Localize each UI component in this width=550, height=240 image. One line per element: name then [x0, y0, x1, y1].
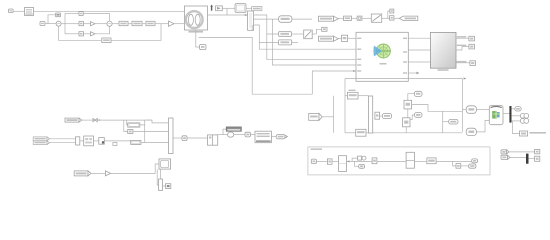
- wire: dc bus mid horizontal: [412, 105, 463, 112]
- mux: converter legs: [369, 96, 373, 133]
- wire: [84, 33, 91, 35]
- wire: [251, 134, 256, 136]
- goto tag: torque Te: [279, 40, 292, 45]
- from tag T1 (measurement row): [65, 118, 82, 122]
- goto tag: current is: [279, 32, 292, 37]
- from tag chain row2: [318, 36, 338, 41]
- wire: [162, 185, 165, 187]
- tall mux MX: [169, 118, 174, 154]
- wire: big block out1 to gray block: [408, 37, 430, 39]
- block: round to square: [357, 16, 362, 20]
- block: I gain: [79, 22, 84, 26]
- wire: bus feed down 3: [272, 19, 356, 65]
- block: feedback filter: [102, 38, 111, 43]
- block: P gain: [79, 12, 83, 16]
- small cluster lower: [359, 164, 365, 168]
- big block port labels right: [403, 38, 407, 74]
- wire: from tag feed vertical: [332, 96, 334, 133]
- wire: big block out4 stub: [408, 72, 416, 74]
- wire: [95, 23, 107, 25]
- block F4 tall: [406, 152, 414, 168]
- block: gate R1: [348, 92, 359, 99]
- wire: [377, 160, 406, 162]
- wire: [100, 119, 152, 121]
- wire: [380, 115, 383, 117]
- wire: branch up: [387, 11, 389, 18]
- block V2: transform: [84, 136, 94, 146]
- block: trigger/probe: [216, 6, 223, 11]
- wire: [144, 120, 146, 125]
- label text right: [530, 132, 547, 134]
- small block above rate transition: [322, 27, 327, 31]
- goto tag a: [414, 91, 422, 96]
- wire: P branch: [65, 13, 79, 15]
- wire: [317, 160, 328, 162]
- wire: vertical right drop to battery branch: [461, 79, 463, 132]
- wire + label: out1: [456, 37, 469, 39]
- bowtie converter: [93, 119, 97, 122]
- block: small converter into big block: [342, 35, 348, 41]
- gray gradient subsystem block: [430, 32, 456, 68]
- wire: vertical left drop: [344, 79, 346, 133]
- arrowhead: [353, 70, 356, 72]
- bottom right: from tag P2: [501, 155, 510, 159]
- wire: junction vertical: [251, 25, 253, 31]
- wire: [388, 10, 390, 12]
- block: rate transition: [371, 14, 381, 22]
- from tag T2: [33, 137, 49, 141]
- block F1: [327, 159, 332, 164]
- display block D1: [128, 123, 140, 127]
- wire: [128, 23, 132, 25]
- goto tag mid: [382, 114, 391, 119]
- logo: blue cone: [373, 46, 382, 57]
- goto tag g: [469, 164, 476, 168]
- block: small indicator right of selector: [166, 184, 171, 189]
- wire: [83, 14, 109, 22]
- small block lower: [390, 16, 394, 20]
- wire: [347, 160, 373, 162]
- big block port labels left: [357, 38, 361, 72]
- block: gate R2: [356, 129, 366, 136]
- wire: D2 to mux: [141, 142, 169, 144]
- wire: [104, 140, 130, 142]
- block: limiter 2: [146, 21, 155, 25]
- wire: [436, 160, 472, 162]
- wire: [414, 160, 427, 162]
- wire RB2 to battery: [476, 121, 489, 132]
- wire: I branch: [65, 23, 79, 25]
- block F6: [456, 164, 461, 169]
- from tag A: [40, 22, 45, 26]
- block A: chopper upper: [404, 100, 412, 109]
- wire branch down: [453, 161, 456, 166]
- block F3: [372, 158, 377, 164]
- scope block SCB layered: [255, 131, 271, 143]
- wire: branch vertical: [442, 111, 444, 133]
- wire: motor output m to bus selector: [208, 14, 248, 16]
- mux small V1: [76, 137, 80, 145]
- wire: bus out 3: [254, 25, 279, 42]
- block SQ1: [535, 149, 540, 153]
- block MEM: two-cell: [208, 135, 218, 145]
- wire: [80, 140, 84, 142]
- wire stub: [443, 121, 449, 123]
- wire segment mux to return: [373, 132, 407, 134]
- from tag TB (bottom): [74, 171, 91, 176]
- wire: [332, 160, 339, 162]
- wire long to scope area: [111, 164, 159, 173]
- wire: [45, 23, 56, 25]
- wire + label: out3: [456, 62, 470, 64]
- block: saturation 1: [119, 21, 128, 25]
- wire: [50, 142, 76, 144]
- wire: [271, 135, 276, 137]
- wire: [462, 109, 466, 111]
- wire stub cluster: [352, 158, 358, 161]
- wire to tag: [408, 94, 415, 101]
- wire: [234, 134, 245, 136]
- busbar 1 (black): [509, 106, 511, 123]
- wire: feedback down from junction: [111, 24, 161, 41]
- from tag c: [449, 119, 458, 124]
- wire: [338, 17, 343, 19]
- small block upper: [390, 9, 394, 13]
- from tag f: [311, 159, 316, 164]
- wire: [351, 17, 357, 19]
- wire: bus out 2: [254, 15, 279, 34]
- scope block: [235, 4, 246, 13]
- wire: [317, 29, 322, 34]
- wire: speed ref to motor input 1: [34, 10, 185, 12]
- wire: feedback to sum1 bottom: [59, 26, 102, 40]
- wire: D branch: [65, 33, 79, 35]
- wire: dc link long horizontal: [345, 78, 462, 80]
- wire: [112, 23, 119, 25]
- display small block 2: [469, 44, 475, 49]
- wire: D1 out to collector: [140, 125, 145, 143]
- block: electric machine (motor): [184, 6, 207, 30]
- wire: [366, 132, 369, 134]
- wire between A and B: [407, 109, 409, 118]
- display block D2: [131, 140, 141, 144]
- wire: [512, 115, 521, 117]
- display small block 3: [470, 61, 476, 66]
- block B: chopper lower: [403, 118, 411, 127]
- label: motor name text: [189, 31, 204, 33]
- goto tag TG5: [276, 135, 287, 139]
- bus selector: [248, 11, 254, 30]
- wire: [358, 95, 369, 97]
- wire stub: [159, 169, 161, 179]
- label above R1: [349, 90, 356, 91]
- wire: [82, 119, 93, 121]
- small mark: [98, 119, 100, 121]
- wire: RR3 out stub: [292, 41, 298, 43]
- wire: [292, 33, 304, 35]
- wire: [142, 23, 146, 25]
- wire: top feed to mux: [145, 120, 169, 123]
- goto tag b: [414, 113, 422, 118]
- wire RB1 to battery: [476, 109, 489, 111]
- goto tag TG4: [245, 132, 251, 137]
- block: small measure on mux: [375, 112, 380, 119]
- display small block 1: [469, 36, 475, 41]
- goto tag: speed wr: [279, 16, 292, 22]
- block: output gain triangle: [169, 21, 175, 26]
- wire: [345, 95, 348, 97]
- from tag T3: [33, 141, 49, 145]
- wire: [394, 17, 399, 19]
- block SQ2: [535, 156, 540, 161]
- wire: [512, 120, 521, 122]
- label below logo: [380, 63, 387, 65]
- measurement arrow glyph (dark): [210, 5, 213, 11]
- wire: stub down to main line: [226, 8, 228, 15]
- wire: [187, 137, 208, 139]
- wire: gain to motor input 2: [174, 23, 184, 25]
- block LB: vertical selector: [159, 179, 163, 191]
- block: D gain: [79, 32, 84, 36]
- wire: sum to branch: [61, 23, 65, 25]
- wire: P1 to SQ1: [509, 151, 535, 153]
- wire: bus out 1: [254, 18, 279, 20]
- wire: [461, 165, 471, 167]
- wire stub up to dark display: [223, 129, 226, 135]
- sum junction S2: [107, 21, 112, 26]
- wire: [218, 134, 228, 136]
- small block below wire: [113, 142, 117, 145]
- wire: [322, 116, 333, 118]
- wire: [222, 7, 235, 9]
- wire: [50, 138, 76, 140]
- wire: [84, 23, 91, 25]
- wire + label: out2: [456, 47, 469, 50]
- block F2 tall: [339, 156, 347, 172]
- wire: [512, 108, 515, 110]
- wire: [91, 172, 105, 174]
- wire: [155, 23, 169, 25]
- battery block: [489, 106, 503, 125]
- indicator circles row1: [520, 113, 528, 118]
- bottom right: from tag P1: [501, 150, 509, 154]
- dark display DD: [226, 127, 241, 131]
- wire stub: [355, 161, 359, 166]
- logo: green compass circle: [376, 44, 390, 58]
- wire: collector join: [144, 142, 146, 144]
- wire: [246, 7, 252, 9]
- wire: bottom return: [406, 127, 462, 133]
- wire: bus feed down 1: [259, 42, 356, 49]
- from tag: gates: [309, 113, 323, 120]
- block: bottom right small: [520, 131, 528, 136]
- small cluster upper: [358, 156, 366, 160]
- wire: drop to display1: [127, 120, 128, 125]
- block: rate transition 2: [304, 30, 313, 39]
- block: speed reference source: [25, 8, 34, 16]
- wire: big block out3 to gray block: [408, 61, 430, 63]
- scope SCP: [159, 159, 171, 169]
- label below gray block: [438, 69, 449, 71]
- wire: input 6 with arrow: [312, 71, 356, 94]
- block: derivative triangle: [91, 32, 96, 36]
- busbar 2 (black): [526, 154, 529, 164]
- wire: motor bottom loop: [199, 38, 313, 95]
- wire: [95, 26, 110, 34]
- block F5: [427, 158, 436, 164]
- block V3 with dark mark: [99, 138, 105, 145]
- wire down to gain block: [513, 121, 520, 134]
- from tag chain row1: [318, 16, 338, 21]
- wire: [312, 33, 316, 35]
- goto tag above sum: [55, 13, 60, 17]
- wire: [93, 140, 98, 142]
- small block under D1: [128, 130, 133, 134]
- oval tag SOC: [515, 107, 521, 111]
- terminator tag below motor: [200, 44, 207, 49]
- wire: [348, 37, 356, 39]
- wire: motor bottom port down: [196, 30, 200, 47]
- ellipse indicator EL: [228, 132, 234, 137]
- wire: bus feed down 2: [267, 34, 356, 59]
- wire: [13, 10, 24, 12]
- wire: [362, 17, 371, 19]
- goto tag h: [472, 159, 478, 163]
- wire: [292, 18, 312, 20]
- block: integrator triangle: [91, 22, 96, 26]
- wire: [345, 132, 356, 134]
- measure block RB2: [466, 128, 476, 135]
- block: unit convert: [344, 16, 352, 20]
- wire: big block out2 to gray block: [408, 49, 430, 51]
- small rounded block DM: [182, 136, 187, 141]
- wire: small block out: [133, 131, 169, 133]
- subsystem frame box (bottom): [308, 147, 490, 175]
- wire: scope down to logger: [157, 169, 158, 185]
- goto tag wide (left pointing): [399, 16, 418, 21]
- arrowhead: [464, 77, 467, 79]
- wire: branch vertical: [64, 14, 66, 34]
- wire: mux out: [173, 137, 182, 139]
- inport In1: [9, 9, 14, 13]
- gain GN2: [105, 171, 110, 176]
- indicator circles row2: [520, 119, 528, 124]
- wire: stub up to goto tag: [48, 15, 55, 24]
- wire: drop to small block: [124, 120, 128, 131]
- arrowhead terminator: [417, 72, 420, 75]
- big block: FOC controller subsystem: [356, 32, 408, 81]
- wire: [382, 17, 390, 19]
- wire stub to tag b: [410, 115, 414, 120]
- sum junction S1: [56, 21, 61, 26]
- wire: [338, 37, 341, 39]
- block: rate limiter: [132, 21, 142, 25]
- wire: busbar2 to SQ2: [529, 158, 535, 160]
- frame title: [311, 148, 323, 150]
- block: label display: [252, 7, 262, 11]
- wire: P2 to busbar2: [510, 156, 526, 158]
- wire battery to busbar: [503, 113, 509, 115]
- measure block RB1: [466, 106, 476, 114]
- arrowhead into F2: [347, 160, 350, 162]
